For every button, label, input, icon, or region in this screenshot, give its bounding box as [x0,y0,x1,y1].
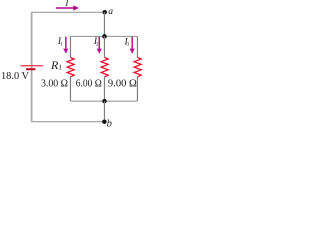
label I3 [124,37,130,47]
wire: inner top rail [70,35,137,37]
battery 18.0 V: short negative plate [26,68,35,70]
resistor R2 zigzag 6.00 ohm [101,58,108,77]
svg-text:18.0 V: 18.0 V [1,70,29,82]
svg-text:2: 2 [96,42,99,48]
wire: inner bottom rail [70,100,137,102]
wire: branch 1 top lead [69,36,71,57]
svg-text:9.00 Ω: 9.00 Ω [108,77,137,89]
wire: branch 1 bottom lead [69,76,71,101]
wire: bottom rail from battery to node b [31,121,104,123]
battery 18.0 V: long positive plate [21,65,43,67]
junction dot top [102,34,107,39]
label I1 [57,37,63,47]
value label 9.00 ohm [108,77,137,89]
current arrow I on top rail [56,5,79,10]
wire: junction down to node b [103,101,105,122]
label R1 [50,58,62,72]
wire: branch 3 top lead [136,36,138,57]
label I2 [93,37,99,48]
wire: top rail from battery to node a [31,11,104,13]
svg-text:a: a [108,6,113,17]
svg-text:3.00 Ω: 3.00 Ω [41,77,68,89]
label I [64,0,69,8]
svg-text:b: b [107,119,112,130]
node b [102,119,107,124]
wire: branch 3 bottom lead [136,76,138,101]
wire: node a down to parallel network [103,12,105,36]
label 18.0 V [1,70,29,82]
current arrow I3 [130,37,135,54]
wire: branch 2 top lead [103,36,105,57]
label b [107,119,112,130]
current arrow I2 [97,37,102,54]
resistor R1 zigzag 3.00 ohm [67,58,74,77]
svg-text:I: I [64,0,69,8]
resistor R3 zigzag 9.00 ohm [134,58,141,77]
svg-text:3: 3 [127,42,130,48]
value label 3.00 ohm [41,77,68,89]
wire: branch 2 bottom lead [103,76,105,101]
value label 6.00 ohm [76,77,102,89]
svg-text:6.00 Ω: 6.00 Ω [76,77,102,89]
svg-text:1: 1 [60,42,63,48]
junction dot bottom [102,99,107,104]
label a [108,6,113,17]
svg-text:1: 1 [58,64,62,72]
node a [102,10,107,15]
wire: left vertical through battery [31,12,33,122]
current arrow I1 [63,37,68,54]
